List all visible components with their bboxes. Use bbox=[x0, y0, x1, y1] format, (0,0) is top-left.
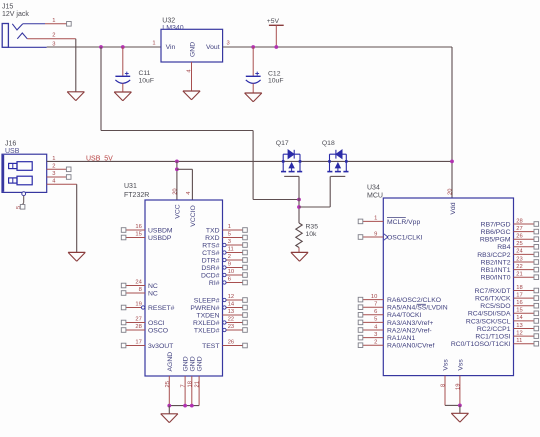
capacitor C11 bbox=[115, 47, 154, 92]
svg-text:7: 7 bbox=[181, 384, 187, 387]
J16 pin 2 bbox=[47, 163, 71, 171]
svg-text:15: 15 bbox=[516, 308, 522, 314]
svg-text:18: 18 bbox=[187, 381, 193, 387]
U34 pin 14 RC3/SCK/SCL bbox=[466, 315, 539, 325]
U34 pin 27 RB6/PGC bbox=[481, 226, 539, 236]
svg-text:RB7/PGD: RB7/PGD bbox=[481, 221, 511, 228]
svg-text:17: 17 bbox=[516, 292, 522, 298]
svg-text:1: 1 bbox=[152, 40, 155, 46]
svg-text:23: 23 bbox=[516, 256, 522, 262]
svg-text:RB1/INT1: RB1/INT1 bbox=[481, 267, 511, 274]
svg-text:R35: R35 bbox=[306, 223, 319, 230]
svg-text:1: 1 bbox=[228, 224, 231, 230]
wire +5V down right side to Vdd bbox=[451, 47, 453, 198]
U31 pin 17 3v3OUT bbox=[121, 340, 173, 350]
svg-text:C12: C12 bbox=[268, 70, 281, 77]
svg-text:FT232R: FT232R bbox=[124, 192, 149, 199]
svg-text:17: 17 bbox=[135, 340, 141, 346]
svg-text:16: 16 bbox=[516, 300, 522, 306]
svg-text:RA3/AN3/Vref+: RA3/AN3/Vref+ bbox=[387, 320, 433, 327]
svg-text:RA0/AN0/CVref: RA0/AN0/CVref bbox=[387, 343, 434, 350]
svg-text:DSR#: DSR# bbox=[201, 265, 219, 272]
U34 pin 1 MCLR/Vpp bbox=[358, 216, 420, 226]
J16 pin 3 bbox=[47, 171, 71, 179]
svg-text:OSCO: OSCO bbox=[148, 327, 168, 334]
svg-text:VCCIO: VCCIO bbox=[190, 205, 197, 227]
node junction at +5V vertical and Q18 drain bbox=[450, 160, 454, 164]
node junction Vss bbox=[458, 404, 462, 408]
svg-text:DCD#: DCD# bbox=[201, 272, 220, 279]
svg-text:RC5/SDO: RC5/SDO bbox=[480, 303, 510, 310]
svg-text:+5V: +5V bbox=[267, 18, 280, 25]
svg-text:22: 22 bbox=[516, 264, 522, 270]
svg-text:RB3/CCP2: RB3/CCP2 bbox=[477, 252, 510, 259]
svg-text:22: 22 bbox=[228, 317, 234, 323]
svg-text:MCU: MCU bbox=[367, 192, 383, 199]
U34 pin 23 RB2/INT2 bbox=[481, 256, 539, 266]
J16 pin 5 bbox=[16, 196, 25, 210]
wire +5V rail U32 Vout to right bbox=[223, 46, 452, 48]
IC U34 MCU bbox=[367, 184, 514, 375]
U31 pin 27 OSCI bbox=[121, 317, 164, 327]
capacitor C12 bbox=[246, 47, 284, 93]
ground for J16 pin 4 bbox=[68, 252, 85, 261]
U34 pin 3 RA1/AN1 bbox=[358, 332, 415, 342]
ground for U32 bbox=[183, 91, 200, 100]
U31 pin 6 RI# bbox=[209, 277, 247, 287]
U34 pin 11 RC0/T1OSO/T1CKI bbox=[451, 338, 539, 348]
svg-text:6: 6 bbox=[374, 309, 377, 315]
svg-text:10uF: 10uF bbox=[268, 78, 284, 85]
svg-text:U31: U31 bbox=[124, 183, 137, 190]
U34 pin 7 RA5/AN4/SS/LVDIN bbox=[358, 302, 448, 312]
svg-text:Vout: Vout bbox=[206, 44, 220, 51]
svg-text:OSC1/CLKI: OSC1/CLKI bbox=[387, 234, 423, 241]
U34 pin 12 RC1/T1OSI bbox=[475, 330, 538, 340]
svg-text:RC4/SDI/SDA: RC4/SDI/SDA bbox=[468, 311, 511, 318]
U31 pin 3 RTS# bbox=[202, 239, 247, 249]
svg-text:26: 26 bbox=[228, 340, 234, 346]
svg-text:Q18: Q18 bbox=[322, 140, 335, 147]
svg-text:3: 3 bbox=[227, 40, 230, 46]
svg-text:25: 25 bbox=[165, 381, 171, 387]
ground for U34 bbox=[451, 413, 468, 422]
svg-text:20: 20 bbox=[447, 189, 453, 195]
svg-text:PWREN#: PWREN# bbox=[190, 305, 219, 312]
wire rail-drop horizontal run bbox=[101, 130, 253, 132]
svg-text:24: 24 bbox=[135, 280, 142, 286]
svg-text:DTR#: DTR# bbox=[202, 257, 220, 264]
svg-text:28: 28 bbox=[135, 324, 141, 330]
svg-text:RA4/T0CKI: RA4/T0CKI bbox=[387, 312, 421, 319]
svg-text:27: 27 bbox=[135, 317, 141, 323]
svg-text:12V jack: 12V jack bbox=[2, 11, 29, 18]
IC U31 FT232R bbox=[124, 183, 223, 376]
svg-text:10: 10 bbox=[228, 269, 234, 275]
U34 pin 22 RB1/INT1 bbox=[481, 264, 539, 274]
svg-text:RC7/RX/DT: RC7/RX/DT bbox=[475, 288, 511, 295]
svg-text:11: 11 bbox=[516, 338, 522, 344]
svg-text:RB0/INT0: RB0/INT0 bbox=[481, 275, 511, 282]
ground for C12 bbox=[245, 93, 262, 102]
svg-text:9: 9 bbox=[228, 262, 231, 268]
U34 pin 26 RB5/PGM bbox=[480, 234, 539, 244]
ground for J15 pin 2 bbox=[67, 92, 84, 101]
U34 pin 18 RC7/RX/DT bbox=[475, 285, 539, 295]
wire J16 pin4 to ground bbox=[76, 184, 78, 252]
U31 pin 5 RXD bbox=[205, 232, 247, 242]
J15 pin 1 bbox=[23, 18, 71, 26]
U34 pin 25 RB4 bbox=[497, 241, 538, 251]
svg-text:9: 9 bbox=[374, 231, 377, 237]
U34 pin 9 OSC1/CLKI bbox=[358, 231, 422, 241]
U31 pin 19 RESET# bbox=[121, 302, 174, 312]
svg-text:NC: NC bbox=[148, 283, 158, 290]
ground for R35 bbox=[291, 252, 308, 261]
svg-text:GND: GND bbox=[189, 356, 196, 371]
transistor Q17 PMOS bbox=[276, 140, 302, 176]
svg-text:18: 18 bbox=[516, 285, 522, 291]
svg-text:TEST: TEST bbox=[202, 343, 219, 350]
svg-text:2: 2 bbox=[228, 254, 231, 260]
U31 pin 12 SLEEP# bbox=[194, 294, 248, 304]
U31 pin 24 NC bbox=[121, 280, 158, 290]
wire drop to gate net bbox=[252, 131, 254, 200]
svg-text:2: 2 bbox=[52, 33, 55, 39]
svg-text:RA2/AN2/Vref-: RA2/AN2/Vref- bbox=[387, 327, 432, 334]
svg-text:20: 20 bbox=[172, 188, 178, 194]
wire branch to Q18 gate bbox=[299, 176, 330, 207]
svg-text:OSCI: OSCI bbox=[148, 320, 165, 327]
svg-text:Vss: Vss bbox=[443, 359, 450, 371]
svg-text:3: 3 bbox=[374, 332, 377, 338]
J15 pin 2 bbox=[27, 33, 76, 39]
svg-text:CTS#: CTS# bbox=[202, 250, 220, 257]
transistor Q18 PMOS bbox=[322, 140, 349, 176]
svg-text:21: 21 bbox=[195, 381, 201, 387]
svg-text:21: 21 bbox=[516, 272, 522, 278]
node junction AGND bbox=[167, 404, 171, 408]
svg-text:7: 7 bbox=[374, 302, 377, 308]
svg-text:26: 26 bbox=[516, 234, 522, 240]
U31 pin 2 DTR# bbox=[202, 254, 248, 264]
svg-text:8: 8 bbox=[139, 287, 142, 293]
U31 pin 22 RXLED# bbox=[193, 317, 247, 327]
U31 pin 18 GND bbox=[187, 356, 196, 405]
U31 pin 8 NC bbox=[121, 287, 158, 297]
svg-text:RC2/CCP1: RC2/CCP1 bbox=[477, 326, 511, 333]
svg-text:28: 28 bbox=[516, 218, 522, 224]
U31 pin 14 PWREN# bbox=[190, 302, 247, 312]
svg-text:RESET#: RESET# bbox=[148, 305, 175, 312]
regulator U32 LM340 bbox=[161, 17, 223, 62]
U34 pin 16 RC5/SDO bbox=[480, 300, 538, 310]
U34 pin 13 RC2/CCP1 bbox=[477, 323, 539, 333]
svg-text:TXD: TXD bbox=[206, 227, 220, 234]
U32 pin 4 GND lead bbox=[186, 62, 192, 91]
svg-text:3: 3 bbox=[52, 171, 55, 177]
svg-text:24: 24 bbox=[516, 249, 523, 255]
svg-text:12: 12 bbox=[516, 330, 522, 336]
node junction VCCIO branch bbox=[175, 167, 179, 171]
wire drop from +12V rail bbox=[100, 47, 102, 131]
svg-text:RC6/TX/CK: RC6/TX/CK bbox=[475, 296, 511, 303]
svg-text:19: 19 bbox=[135, 302, 141, 308]
svg-text:J15: J15 bbox=[2, 3, 13, 10]
svg-text:6: 6 bbox=[228, 277, 231, 283]
U31 pin 21 GND bbox=[195, 356, 204, 405]
svg-text:8: 8 bbox=[440, 384, 446, 387]
U31 pin 26 TEST bbox=[202, 340, 247, 350]
J16 pin 4 bbox=[47, 178, 77, 184]
svg-text:RC3/SCK/SCL: RC3/SCK/SCL bbox=[466, 318, 511, 325]
connector J15 12V jack bbox=[2, 3, 47, 47]
node junction GND7 bbox=[183, 404, 187, 408]
power port +5V bbox=[267, 18, 284, 47]
svg-text:5: 5 bbox=[374, 317, 377, 323]
node junction Q17 gate bbox=[297, 198, 301, 202]
svg-text:16: 16 bbox=[135, 224, 141, 230]
wire gate net vertical bbox=[298, 176, 300, 223]
svg-text:RB2/INT2: RB2/INT2 bbox=[481, 259, 511, 266]
svg-text:AGND: AGND bbox=[167, 352, 174, 372]
svg-text:RC0/T1OSO/T1CKI: RC0/T1OSO/T1CKI bbox=[451, 341, 511, 348]
svg-text:TXLED#: TXLED# bbox=[194, 327, 220, 334]
wire U34 ground bus bbox=[445, 404, 460, 406]
svg-text:12: 12 bbox=[228, 294, 234, 300]
wire +12V rail jack to U32 Vin bbox=[47, 46, 161, 48]
svg-text:3: 3 bbox=[228, 239, 231, 245]
svg-text:U32: U32 bbox=[162, 17, 175, 24]
svg-text:15: 15 bbox=[135, 232, 141, 238]
svg-text:VCC: VCC bbox=[174, 204, 181, 218]
wire U31 ground bus bbox=[169, 405, 199, 407]
svg-text:Vdd: Vdd bbox=[450, 202, 457, 214]
svg-text:RA6/OSC2/CLKO: RA6/OSC2/CLKO bbox=[387, 297, 441, 304]
svg-text:1: 1 bbox=[52, 18, 55, 24]
U34 pin 19 Vss bbox=[455, 376, 461, 406]
node junction gate to Q18 branch bbox=[297, 205, 301, 209]
svg-text:J16: J16 bbox=[5, 141, 16, 148]
svg-text:RA1/AN1: RA1/AN1 bbox=[387, 335, 416, 342]
svg-text:27: 27 bbox=[516, 226, 522, 232]
wire U31 gnd stem bbox=[168, 406, 170, 414]
svg-text:Vss: Vss bbox=[458, 359, 465, 371]
resistor R35 bbox=[296, 223, 318, 252]
svg-text:Vin: Vin bbox=[166, 44, 176, 51]
svg-text:USBDM: USBDM bbox=[148, 227, 173, 234]
svg-text:C11: C11 bbox=[139, 70, 151, 77]
svg-text:GND: GND bbox=[197, 356, 204, 371]
svg-text:MCLR/Vpp: MCLR/Vpp bbox=[387, 219, 420, 226]
svg-text:RA5/AN4/SS/LVDIN: RA5/AN4/SS/LVDIN bbox=[387, 305, 448, 312]
svg-text:13: 13 bbox=[228, 309, 234, 315]
U31 pin 23 TXLED# bbox=[194, 324, 247, 334]
U34 pin 24 RB3/CCP2 bbox=[477, 249, 538, 259]
U31 pin 15 USBDP bbox=[121, 232, 172, 242]
svg-text:RB5/PGM: RB5/PGM bbox=[480, 237, 511, 244]
svg-text:TXDEN: TXDEN bbox=[196, 312, 219, 319]
U31 pin 1 TXD bbox=[206, 224, 247, 234]
svg-text:14: 14 bbox=[516, 315, 523, 321]
node junction C11 bbox=[121, 45, 125, 49]
U34 pin 6 RA4/T0CKI bbox=[358, 309, 421, 319]
wire VCCIO branch bbox=[177, 169, 193, 200]
svg-text:5: 5 bbox=[228, 232, 231, 238]
U31 pin 16 USBDM bbox=[121, 224, 173, 234]
U34 pin 2 RA0/AN0/CVref bbox=[358, 340, 434, 350]
svg-text:1: 1 bbox=[374, 216, 377, 222]
svg-text:2: 2 bbox=[374, 340, 377, 346]
svg-text:U34: U34 bbox=[367, 184, 380, 191]
U34 pin 10 RA6/OSC2/CLKO bbox=[358, 294, 441, 304]
svg-text:3v3OUT: 3v3OUT bbox=[148, 343, 173, 350]
svg-text:10: 10 bbox=[371, 294, 377, 300]
U31 pin 25 AGND bbox=[165, 352, 174, 406]
wire USB_5V rail bbox=[47, 160, 452, 162]
U31 pin 7 GND bbox=[181, 356, 190, 405]
svg-text:11: 11 bbox=[228, 247, 234, 253]
U34 pin 5 RA3/AN3/Vref+ bbox=[358, 317, 433, 327]
wire U34 gnd stem bbox=[459, 405, 461, 413]
svg-text:USBDP: USBDP bbox=[148, 235, 172, 242]
U34 pin 4 RA2/AN2/Vref- bbox=[358, 324, 432, 334]
svg-text:13: 13 bbox=[516, 323, 522, 329]
U31 pin 11 CTS# bbox=[202, 247, 247, 257]
U34 pin 15 RC4/SDI/SDA bbox=[468, 308, 539, 318]
wire VCC drop to U31 bbox=[176, 161, 178, 200]
svg-text:10k: 10k bbox=[306, 231, 318, 238]
svg-text:10uF: 10uF bbox=[139, 78, 155, 85]
svg-text:14: 14 bbox=[228, 302, 235, 308]
connector J16 USB bbox=[2, 141, 47, 196]
svg-text:GND: GND bbox=[189, 42, 196, 57]
wire J15 pin2 to ground bbox=[75, 39, 77, 92]
svg-text:RXD: RXD bbox=[205, 235, 219, 242]
svg-text:25: 25 bbox=[516, 241, 522, 247]
U34 pin 21 RB0/INT0 bbox=[481, 272, 539, 282]
svg-text:23: 23 bbox=[228, 324, 234, 330]
ground for C11 bbox=[114, 92, 131, 101]
wire to Q17 gate junction bbox=[253, 199, 299, 201]
ground for U31 bbox=[161, 414, 178, 423]
U34 pin 17 RC6/TX/CK bbox=[475, 292, 539, 302]
U31 pin 28 OSCO bbox=[121, 324, 168, 334]
node junction +5V stem bbox=[274, 45, 278, 49]
svg-text:2: 2 bbox=[52, 163, 55, 169]
node junction left-drop bbox=[99, 45, 103, 49]
svg-text:RTS#: RTS# bbox=[202, 242, 219, 249]
svg-text:RC1/T1OSI: RC1/T1OSI bbox=[475, 334, 510, 341]
U34 pin 8 Vss bbox=[440, 376, 446, 406]
U34 pin 28 RB7/PGD bbox=[481, 218, 539, 228]
U31 pin 9 DSR# bbox=[201, 262, 247, 272]
svg-text:Q17: Q17 bbox=[276, 140, 289, 147]
svg-text:NC: NC bbox=[148, 290, 158, 297]
svg-text:RI#: RI# bbox=[209, 280, 220, 287]
svg-text:RXLED#: RXLED# bbox=[193, 320, 220, 327]
node junction GND18 bbox=[190, 404, 194, 408]
svg-text:RB6/PGC: RB6/PGC bbox=[481, 229, 511, 236]
node junction C12 bbox=[251, 45, 255, 49]
U31 pin 13 TXDEN bbox=[196, 309, 247, 319]
svg-text:SLEEP#: SLEEP# bbox=[194, 297, 220, 304]
node junction VCC drop bbox=[175, 160, 179, 164]
svg-text:19: 19 bbox=[455, 384, 461, 390]
U31 pin 10 DCD# bbox=[201, 269, 247, 279]
svg-text:RB4: RB4 bbox=[497, 244, 510, 251]
